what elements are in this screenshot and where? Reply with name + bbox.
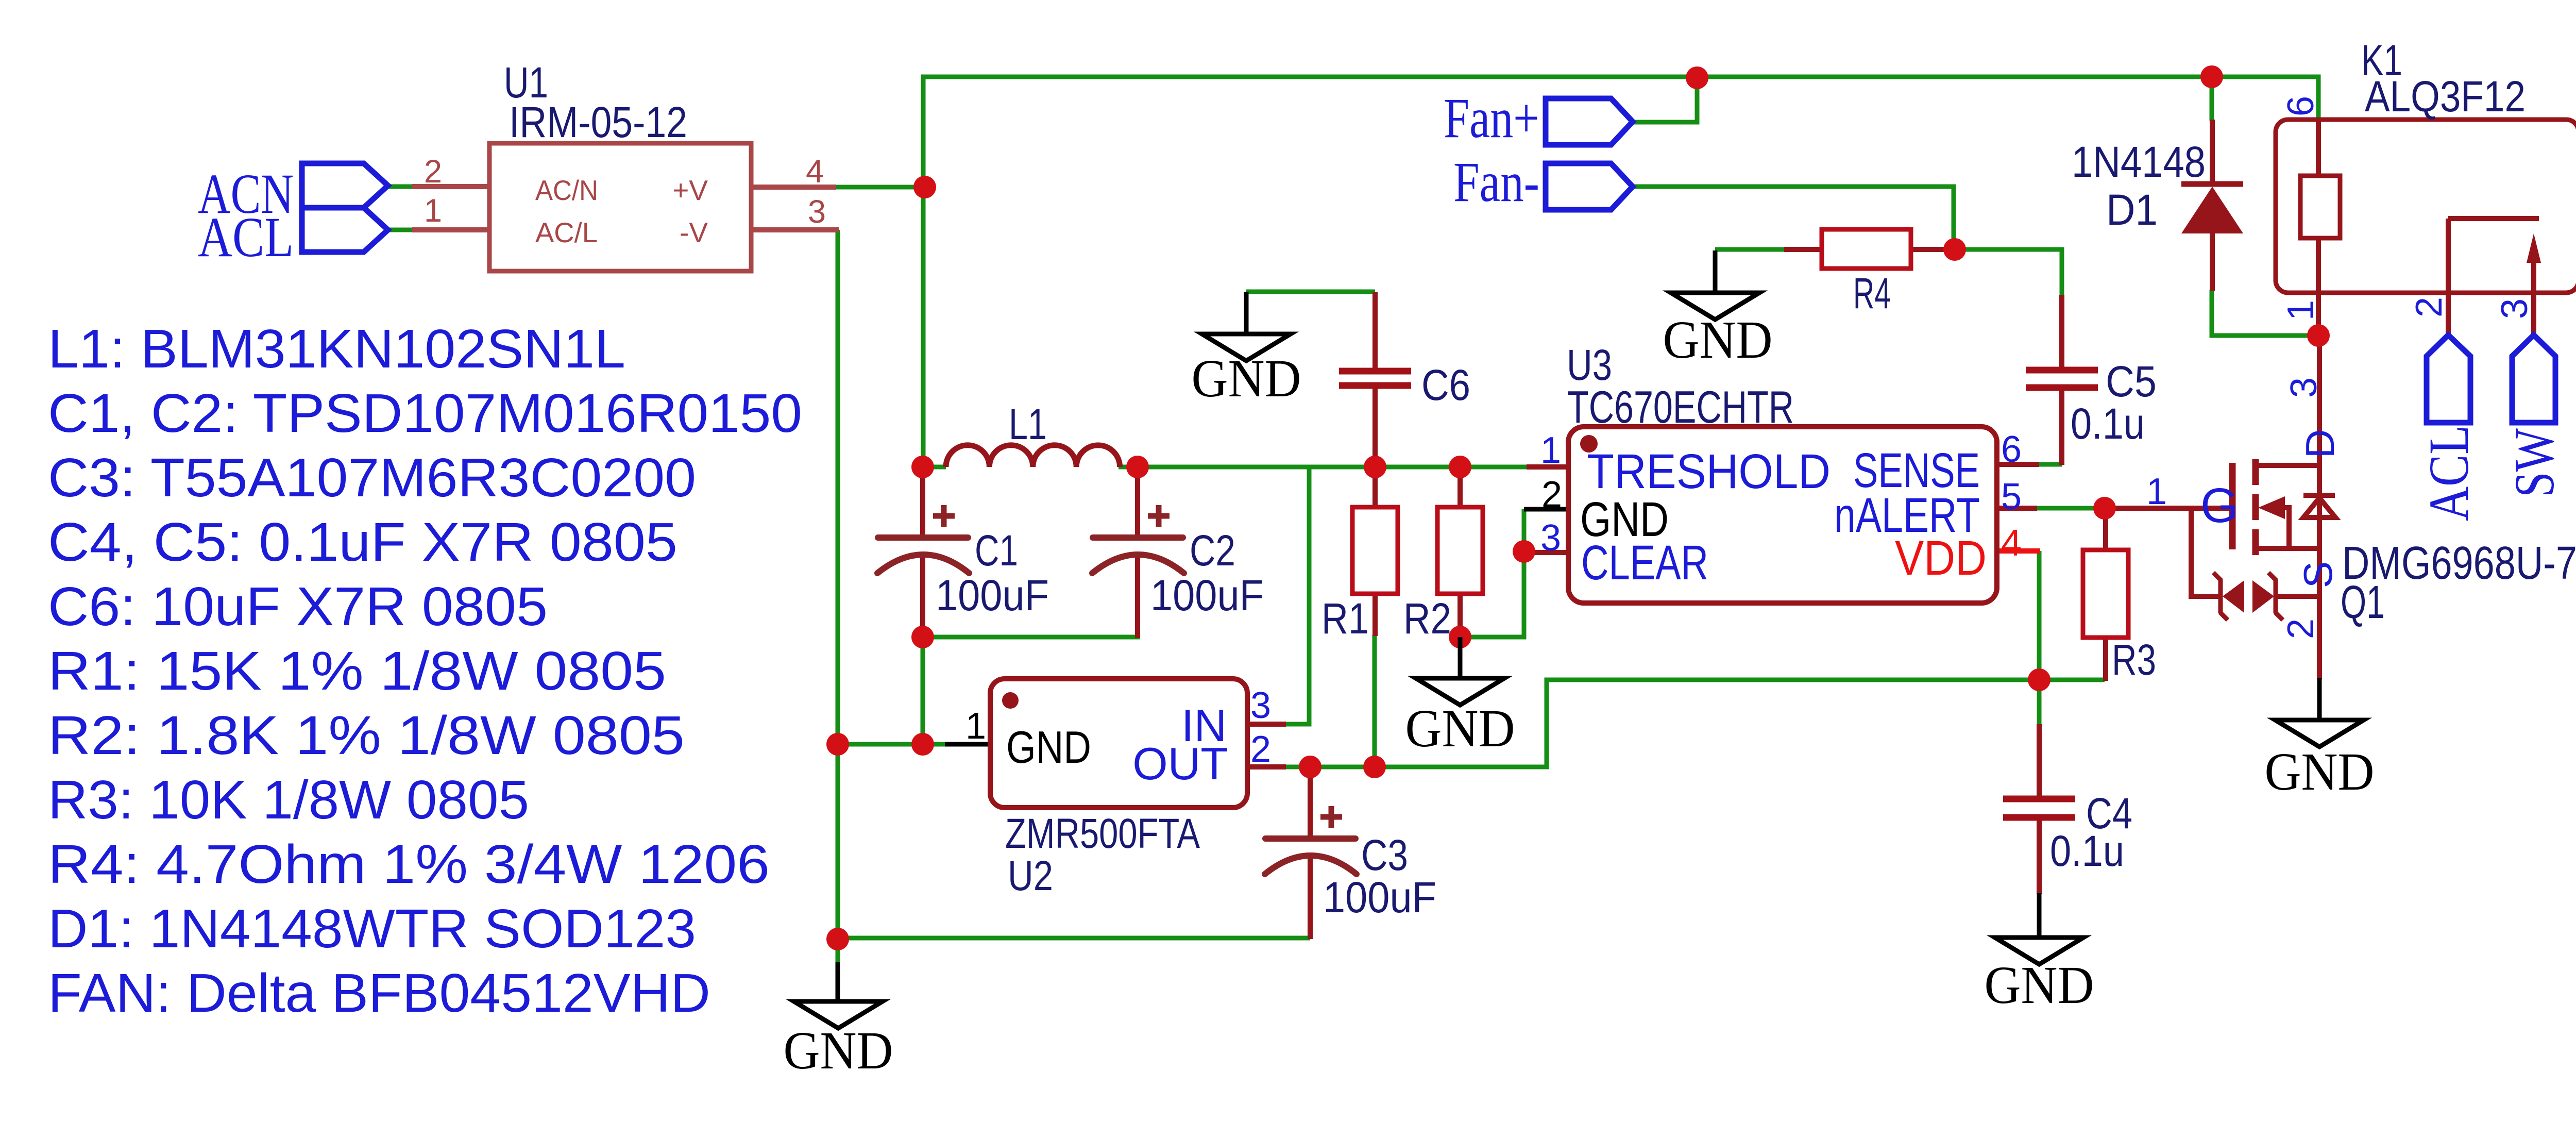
node junction R2 GND xyxy=(1449,626,1471,648)
wire U3 pin4 VDD stub xyxy=(1997,548,2040,554)
svg-text:Q1: Q1 xyxy=(2341,577,2385,628)
wire U1 pin3 down to GND rail xyxy=(836,230,840,939)
svg-text:R1: 15K 1% 1/8W 0805: R1: 15K 1% 1/8W 0805 xyxy=(48,641,666,701)
node junction R4 C5 xyxy=(1943,238,1966,261)
svg-text:ACL: ACL xyxy=(2417,425,2480,521)
svg-text:AC/N: AC/N xyxy=(535,174,598,206)
wire U2 GND symbol stem upper xyxy=(836,939,840,963)
svg-text:CLEAR: CLEAR xyxy=(1581,536,1708,590)
wire ACL flag tip xyxy=(387,228,413,232)
svg-text:TRESHOLD: TRESHOLD xyxy=(1587,444,1831,499)
svg-text:3: 3 xyxy=(1540,517,1561,559)
wire Q1 drain tap xyxy=(2256,463,2319,468)
node junction K1 pin1 D1 xyxy=(2307,324,2330,347)
svg-text:FAN: Delta BFB04512VHD: FAN: Delta BFB04512VHD xyxy=(48,963,710,1024)
svg-text:3: 3 xyxy=(2283,377,2325,398)
wire Q1 gate net xyxy=(2105,506,2231,511)
wire C6 bottom lead xyxy=(1372,387,1378,467)
node junction OUT C3 xyxy=(1299,756,1321,778)
fan controller U3 xyxy=(1540,341,2022,603)
capacitor C5 xyxy=(2026,357,2157,448)
svg-text:GND: GND xyxy=(2265,742,2375,801)
wire C3 top lead xyxy=(1308,767,1313,838)
wire D1 cathode lead xyxy=(2210,232,2215,291)
svg-text:C1: C1 xyxy=(975,526,1018,575)
wire C3 bottom lead xyxy=(1308,857,1313,939)
wire R4 right to C5 xyxy=(1955,249,2062,296)
svg-text:D1: D1 xyxy=(2106,186,2158,234)
wire U2 GND pin row xyxy=(838,742,946,747)
wire bottom GND rail xyxy=(838,936,1310,941)
node Fan- flag xyxy=(1453,150,1633,213)
wire Fan+ to rail xyxy=(1633,78,1697,122)
wire L1 left stub xyxy=(923,465,946,470)
svg-text:GND: GND xyxy=(1405,699,1515,758)
svg-text:C2: C2 xyxy=(1190,526,1235,575)
wire C1 bottom lead xyxy=(920,556,925,638)
wire D1 bottom to K1 pin1 xyxy=(2212,290,2318,336)
svg-text:+V: +V xyxy=(672,174,708,206)
wire U2 OUT to VDD net xyxy=(1285,680,2105,767)
svg-text:3: 3 xyxy=(1250,685,1271,726)
wire C6 top to GND xyxy=(1246,290,1375,294)
svg-text:1: 1 xyxy=(2280,300,2321,321)
node BOM parts list xyxy=(48,319,802,1024)
wire R1 bottom lead xyxy=(1372,593,1378,636)
svg-text:C3: T55A107M6R3C0200: C3: T55A107M6R3C0200 xyxy=(48,447,696,508)
wire K1 contact bar xyxy=(2448,216,2539,221)
svg-text:6: 6 xyxy=(2280,96,2321,116)
ground xyxy=(784,962,893,1080)
resistor R1 xyxy=(1321,507,1398,643)
resistor R4 xyxy=(1822,229,1911,317)
capacitor C3 xyxy=(1265,806,1436,922)
svg-text:D: D xyxy=(2297,429,2343,458)
wire C2 top lead xyxy=(1135,467,1140,537)
wire R4 left to GND xyxy=(1715,247,1785,252)
svg-text:R4: 4.7Ohm 1% 3/4W 1206: R4: 4.7Ohm 1% 3/4W 1206 xyxy=(48,834,770,895)
node junction C1 bottom xyxy=(911,626,934,648)
svg-text:GND: GND xyxy=(1985,956,2094,1015)
node junction L1 left xyxy=(911,456,934,478)
svg-text:C1, C2: TPSD107M016R0150: C1, C2: TPSD107M016R0150 xyxy=(48,383,802,444)
wire R4 right lead xyxy=(1910,247,1955,252)
node junction Fan+ rail xyxy=(1686,66,1708,89)
node junction L1 right xyxy=(1126,456,1149,478)
node ACL flag xyxy=(198,206,388,269)
node ACL bottom flag xyxy=(2417,335,2480,521)
wire U1 pin1 stub xyxy=(412,227,489,232)
AC/DC module U1 xyxy=(424,58,826,271)
wire C4 top xyxy=(2037,680,2042,725)
svg-text:0.1u: 0.1u xyxy=(2071,399,2145,448)
wire C2 bottom lead xyxy=(1135,556,1140,638)
wire ACN flag tip xyxy=(387,185,413,189)
wire C5 bottom to U3 pin6 xyxy=(2037,462,2062,467)
svg-text:ALQ3F12: ALQ3F12 xyxy=(2365,72,2526,121)
svg-text:3: 3 xyxy=(808,194,826,230)
svg-text:5: 5 xyxy=(2001,476,2022,517)
node junction U1 pin4 rail xyxy=(913,176,936,198)
wire R4 left lead xyxy=(1784,247,1823,252)
svg-text:100uF: 100uF xyxy=(936,571,1049,620)
svg-text:L1: BLM31KN102SN1L: L1: BLM31KN102SN1L xyxy=(48,319,625,379)
svg-text:-V: -V xyxy=(680,216,708,248)
resistor R3 xyxy=(2083,550,2156,684)
svg-text:GND: GND xyxy=(784,1021,893,1080)
wire K1 pin6 lead xyxy=(2316,118,2321,177)
ground xyxy=(1405,637,1515,758)
resistor R2 xyxy=(1403,507,1483,643)
wire K1 pin2 lead xyxy=(2446,219,2451,336)
svg-text:VDD: VDD xyxy=(1895,531,1987,585)
svg-text:GND: GND xyxy=(1006,722,1091,773)
svg-text:6: 6 xyxy=(2001,429,2022,470)
svg-text:GND: GND xyxy=(1663,310,1773,370)
regulator U2 xyxy=(965,679,1271,899)
svg-text:1: 1 xyxy=(1540,430,1561,471)
node junction bottom rail GND xyxy=(826,928,849,950)
wire C5 top lead xyxy=(2059,295,2064,369)
relay K1 xyxy=(2276,36,2576,321)
node junction R2 top xyxy=(1449,456,1471,478)
wire Fan- to R4 xyxy=(1633,187,1954,249)
svg-text:R3: 10K 1/8W 0805: R3: 10K 1/8W 0805 xyxy=(48,769,529,830)
svg-text:G: G xyxy=(2200,478,2239,533)
svg-text:100uF: 100uF xyxy=(1323,873,1436,922)
svg-text:R1: R1 xyxy=(1321,594,1369,643)
svg-text:L1: L1 xyxy=(1009,400,1047,448)
capacitor C6 xyxy=(1339,361,1470,409)
capacitor C1 xyxy=(877,505,1049,620)
wire R2 top lead xyxy=(1458,466,1463,508)
wire R3 top lead xyxy=(2103,508,2108,551)
svg-text:1: 1 xyxy=(965,706,986,747)
svg-text:C6: 10uF X7R 0805: C6: 10uF X7R 0805 xyxy=(48,576,548,637)
wire U1 pin3 stub xyxy=(751,227,839,232)
svg-text:Fan-: Fan- xyxy=(1453,150,1539,213)
wire Q1 zener to source xyxy=(2275,594,2319,599)
wire K1 pin3 lead xyxy=(2531,262,2536,336)
wire U1 pin4 stub xyxy=(751,185,836,190)
svg-text:100uF: 100uF xyxy=(1150,571,1264,620)
node Fan+ flag xyxy=(1444,87,1633,149)
wire VDD pin riser xyxy=(2037,551,2042,681)
svg-text:0.1u: 0.1u xyxy=(2050,827,2124,875)
wire Q1 source GND stem xyxy=(2317,678,2322,721)
ground xyxy=(1985,938,2094,1015)
node junction VDD C4 R3 xyxy=(2028,668,2050,691)
node junction C6 R1 xyxy=(1364,456,1386,478)
svg-text:C6: C6 xyxy=(1421,361,1470,409)
svg-text:R2: R2 xyxy=(1403,594,1451,643)
svg-text:OUT: OUT xyxy=(1132,738,1228,789)
svg-text:R2: 1.8K 1% 1/8W 0805: R2: 1.8K 1% 1/8W 0805 xyxy=(48,705,685,766)
wire R2 bottom lead xyxy=(1458,593,1463,638)
wire C4 GND stem xyxy=(2037,893,2042,939)
svg-text:2: 2 xyxy=(424,154,442,190)
wire R1 bottom riser xyxy=(1372,635,1377,769)
svg-text:C4, C5: 0.1uF X7R 0805: C4, C5: 0.1uF X7R 0805 xyxy=(48,512,677,573)
wire K1 coil bottom lead xyxy=(2316,237,2321,336)
svg-text:2: 2 xyxy=(2280,618,2321,639)
transistor Q1 xyxy=(2146,377,2576,639)
wire U3 pin6 stub xyxy=(1997,462,2039,467)
ground xyxy=(1192,292,1301,408)
svg-text:2: 2 xyxy=(1250,729,1271,770)
wire R1 top lead xyxy=(1372,466,1378,508)
wire U3 pin2 GND stub xyxy=(1524,507,1568,512)
svg-text:1: 1 xyxy=(2146,471,2167,512)
node ACN flag xyxy=(198,162,388,225)
svg-text:2: 2 xyxy=(2409,297,2450,317)
svg-text:4: 4 xyxy=(806,154,824,190)
svg-text:ZMR500FTA: ZMR500FTA xyxy=(1005,810,1200,857)
svg-text:SW: SW xyxy=(2503,428,2566,497)
wire D1 top xyxy=(2210,77,2214,121)
svg-text:ACL: ACL xyxy=(198,206,294,269)
wire +12V top rail xyxy=(923,77,2318,467)
svg-text:IRM-05-12: IRM-05-12 xyxy=(509,98,687,146)
svg-text:GND: GND xyxy=(1192,349,1301,408)
node SW flag xyxy=(2503,335,2566,497)
wire U1 pin4 to rail xyxy=(835,185,925,190)
wire L1 right to U3 pin1 rail xyxy=(1118,465,1528,470)
svg-text:D1: 1N4148WTR SOD123: D1: 1N4148WTR SOD123 xyxy=(48,898,696,959)
wire Q1 drain vertical xyxy=(2317,336,2322,679)
svg-text:C5: C5 xyxy=(2106,357,2157,406)
svg-text:1: 1 xyxy=(424,193,442,229)
wire R3 bottom lead xyxy=(2103,637,2108,681)
capacitor C4 xyxy=(2003,789,2132,875)
svg-text:U2: U2 xyxy=(1008,852,1053,899)
wire U1 pin2 stub xyxy=(412,184,489,189)
svg-text:1N4148: 1N4148 xyxy=(2072,138,2206,186)
ground xyxy=(2265,720,2375,801)
node junction CLEAR xyxy=(1513,540,1535,563)
capacitor C2 xyxy=(1092,505,1264,620)
diode D1 xyxy=(2072,138,2243,234)
wire U2 pin3 stub xyxy=(1247,722,1286,727)
svg-text:R4: R4 xyxy=(1853,269,1891,317)
wire Q1 gate zener branch xyxy=(2191,508,2222,596)
wire C1 C2 bottom link xyxy=(923,572,1138,637)
wire C6 top lead xyxy=(1372,292,1378,370)
wire C1 bottom to U2 row xyxy=(921,637,925,744)
wire U3 GND CLEAR riser xyxy=(1458,509,1524,637)
inductor L1 xyxy=(946,400,1120,467)
node junction GND row left xyxy=(826,733,849,756)
node junction D1 rail xyxy=(2200,65,2223,88)
svg-text:S: S xyxy=(2295,561,2341,588)
wire U3 pin3 stub xyxy=(1524,550,1568,555)
svg-text:R3: R3 xyxy=(2112,635,2156,684)
wire U2 pin2 stub xyxy=(1247,764,1286,769)
svg-text:3: 3 xyxy=(2494,298,2535,319)
svg-text:2: 2 xyxy=(1541,474,1562,515)
svg-text:TC670ECHTR: TC670ECHTR xyxy=(1567,381,1794,432)
wire U3 pin5 stub xyxy=(1997,506,2037,511)
wire U2 pin1 GND stub xyxy=(945,742,990,747)
wire U3 pin1 stub xyxy=(1527,464,1568,470)
node junction OUT R1 xyxy=(1363,756,1386,778)
wire D1 anode lead xyxy=(2210,120,2215,185)
svg-text:Fan+: Fan+ xyxy=(1444,87,1539,149)
ground xyxy=(1663,250,1773,370)
wire U2 IN riser xyxy=(1285,467,1309,724)
wire C4 bottom lead xyxy=(2037,818,2042,894)
wire C4 top lead xyxy=(2037,724,2042,798)
wire C5 bottom lead xyxy=(2059,389,2064,465)
svg-text:4: 4 xyxy=(2001,523,2022,564)
svg-text:C3: C3 xyxy=(1361,831,1408,879)
wire nALERT node xyxy=(2036,506,2105,511)
svg-text:AC/L: AC/L xyxy=(535,216,598,248)
wire Q1 source tap xyxy=(2256,546,2319,551)
node junction GND row C1 riser xyxy=(911,733,934,756)
node junction nALERT R3 xyxy=(2093,497,2116,520)
wire C1 top lead xyxy=(920,467,925,537)
